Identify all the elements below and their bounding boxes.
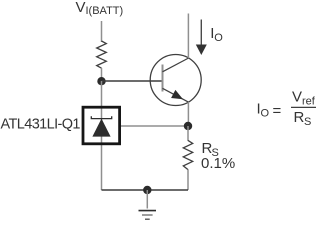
wire REF pin of U1 to node B xyxy=(121,125,188,127)
equation I_O = V_ref / R_S xyxy=(257,88,317,128)
svg-text:0.1%: 0.1% xyxy=(201,155,235,172)
svg-text:=: = xyxy=(273,103,282,120)
wire ground stub xyxy=(146,190,148,209)
bottom rail wire (anode to RS bottom) xyxy=(102,189,189,191)
svg-text:R: R xyxy=(294,109,305,126)
wire from V_I(BATT) to bias resistor xyxy=(101,21,103,42)
wire from bias resistor to node A xyxy=(101,68,103,81)
transistor Q1 (NPN) xyxy=(150,55,201,106)
cathode bar with end ticks xyxy=(91,116,111,118)
shunt regulator U1 ATL431LI-Q1 xyxy=(83,107,120,190)
resistor RS xyxy=(183,140,192,169)
wire node B to RS xyxy=(187,126,189,141)
wire through regulator (cathode to anode) xyxy=(101,107,103,190)
net label V_I(BATT) xyxy=(76,0,124,17)
node B junction (REF / emitter / RS top) xyxy=(184,122,192,130)
svg-text:V: V xyxy=(76,0,86,16)
node C junction (ground tap) xyxy=(143,186,151,194)
wire RS bottom to bottom rail xyxy=(187,170,189,191)
wire emitter of Q1 down to node B xyxy=(187,102,189,126)
label RS 0.1% xyxy=(201,140,235,172)
svg-text:ref: ref xyxy=(302,95,316,107)
node A junction (cathode / base node) xyxy=(97,77,105,85)
current arrow I_O xyxy=(196,20,207,56)
svg-text:ATL431LI-Q1: ATL431LI-Q1 xyxy=(1,117,81,133)
anode triangle xyxy=(92,119,110,137)
svg-text:O: O xyxy=(261,108,270,120)
svg-text:V: V xyxy=(292,88,302,105)
wire collector of Q1 up (output) xyxy=(187,14,189,59)
wire node A to base of Q1 xyxy=(102,80,163,82)
label I_O xyxy=(210,25,223,44)
svg-text:S: S xyxy=(304,116,311,128)
svg-text:O: O xyxy=(214,32,223,44)
ground xyxy=(139,211,157,220)
resistor R1 (bias) xyxy=(97,41,107,68)
svg-text:I(BATT): I(BATT) xyxy=(86,5,124,17)
package box xyxy=(83,107,120,144)
wire node A down to ATL431 cathode xyxy=(101,81,103,107)
